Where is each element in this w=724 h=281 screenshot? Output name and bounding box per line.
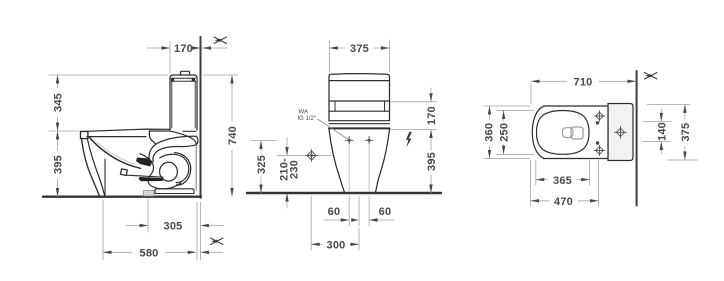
seat opening plan view [537,111,590,155]
tank diamond plan view [615,126,627,138]
svg-text:740: 740 [227,126,239,145]
svg-text:140: 140 [656,122,668,141]
svg-text:170: 170 [426,106,438,125]
electrical bolt front view [406,132,412,148]
dimension 580 left view [103,200,223,260]
dimension 210-230 front view [286,138,288,155]
wall line plan view [636,71,638,206]
dimension 395 left view [57,131,59,197]
dimension 710 plan view [531,81,635,104]
break symbol bottom left view [211,238,224,245]
dimension 740 left view [203,75,238,197]
pedestal back edge side view [104,159,106,196]
dimension 375 plan view [647,104,698,160]
svg-text:60: 60 [328,206,341,218]
trap return lower wall side view [153,145,197,162]
dimension 170 front view [391,88,437,130]
tank corner clips side view [171,78,174,81]
trap loop outer side view [175,153,191,185]
dimension 140 plan view [643,109,671,154]
fixing dot bottom plan view [596,141,599,144]
break symbol top left view [214,37,227,44]
floor line front view [247,192,441,194]
fixing diamond bottom plan view [594,145,605,156]
trap lower tube side view [140,154,181,189]
fixing cross right front view [365,136,373,144]
dimension 170 left view [146,42,227,74]
drain shape right box plan view [571,127,583,139]
svg-text:375: 375 [680,123,692,142]
fixing dot top plan view [596,121,599,124]
wall extension lines below floor left view [196,202,198,260]
dimension 360 plan view [484,106,530,159]
dimension 325 front view [251,140,276,193]
trap hairpin return side view [149,136,196,159]
ledge line side view [127,175,163,177]
bowl interior curve side view [90,138,141,169]
svg-text:170: 170 [174,43,193,55]
fixing diamond top plan view [594,111,605,122]
tank plan view [608,104,633,161]
break symbol plan view [645,73,658,80]
svg-text:300: 300 [327,240,346,252]
svg-text:WA: WA [299,110,308,116]
svg-text:395: 395 [426,152,438,171]
supply diamond front view [306,150,318,162]
supply line front view [277,155,305,157]
body outline plan view [532,106,608,159]
svg-text:365: 365 [553,175,572,187]
tank side view [170,71,197,130]
front profile inner side view [88,139,105,196]
svg-text:230: 230 [289,160,301,179]
drain shape left box plan view [563,128,574,138]
trap hook outer side view [171,131,197,145]
base plate side view [155,189,194,194]
svg-text:580: 580 [140,248,159,260]
drain stub side view [144,191,155,197]
dimension 300 front view [311,196,359,250]
tank bottom step side view [183,130,196,132]
cross drop lines front view [349,146,369,191]
dimension 365 plan view [536,160,590,185]
toilet back edge side view [195,145,197,190]
tank front view [329,74,390,129]
fixing cross left front view [345,136,353,144]
svg-text:60: 60 [379,206,392,218]
svg-text:360: 360 [484,123,496,142]
dimension 395 front view [430,130,432,194]
trap loop island side view [160,162,178,181]
dimension 470 plan view [531,160,599,206]
front profile outer side view [82,139,100,196]
water line light curve side view [97,142,136,165]
front tip square side view [81,131,88,138]
trap inner wall arc side view [160,154,189,182]
svg-text:345: 345 [53,93,65,112]
svg-text:395: 395 [53,155,65,174]
sump step small rect side view [120,169,127,176]
svg-text:250: 250 [499,123,511,142]
wall line left view [200,37,202,198]
WA leader line front view [318,119,348,139]
body taper front view [329,129,345,192]
trap u-turn arc side view [196,136,198,145]
rim lines side view [87,129,170,137]
dimension 250 plan view [497,110,534,154]
dimension 375 front view [329,40,389,72]
svg-text:325: 325 [256,155,268,174]
svg-text:IG 1/2": IG 1/2" [298,116,316,122]
floor line left view [43,195,201,197]
svg-text:470: 470 [554,196,573,208]
dark wedge water seal upper side view [136,158,153,167]
dimension 305 left view [126,199,224,232]
dimension 60 60 front view [324,196,394,226]
svg-text:710: 710 [574,77,593,89]
dimension 345 left view [49,75,168,131]
dark wedge water seal lower side view [139,177,164,181]
rim end step side view [149,131,155,144]
svg-text:375: 375 [350,43,369,55]
svg-text:305: 305 [164,221,183,233]
